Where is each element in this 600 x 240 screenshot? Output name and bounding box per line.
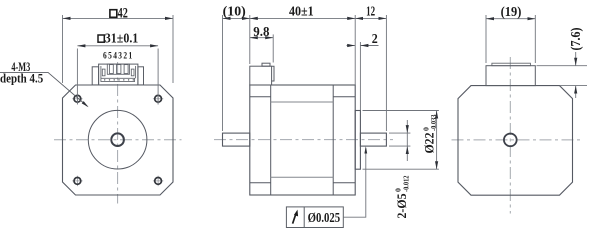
svg-text:12: 12	[366, 5, 375, 19]
dia-22 tolerance text	[421, 114, 438, 153]
dimension (10)	[223, 15, 250, 131]
svg-text:(19): (19)	[501, 3, 522, 19]
stator stack silhouette top	[271, 101, 334, 103]
runout symbol	[293, 210, 299, 224]
rear end-cap joint line	[270, 85, 272, 195]
svg-text:3: 3	[118, 49, 122, 60]
connector front: slot 3	[124, 65, 128, 74]
dimension (19)	[486, 15, 535, 63]
dimension 12	[355, 15, 386, 131]
connector front: left hook	[102, 69, 105, 76]
connector front: slot 1	[109, 65, 113, 74]
2-dia-5 tolerance text	[394, 175, 411, 218]
dimension square-31	[77, 46, 158, 105]
side view horizontal centerline	[214, 139, 393, 141]
connector front: main housing	[99, 64, 138, 85]
(7.6) text	[568, 27, 583, 50]
mounting hole top-left	[72, 94, 82, 104]
dimension (7.6)	[537, 52, 588, 98]
shaft circle	[111, 133, 124, 146]
front view motor body octagon	[63, 85, 174, 195]
runout feature control frame	[286, 207, 343, 228]
svg-text:9.8: 9.8	[253, 24, 270, 39]
svg-text:2: 2	[372, 32, 378, 47]
rear shaft circle	[504, 134, 517, 147]
rear cap chamfer edge top	[250, 96, 271, 98]
connector front: inner left wall	[100, 66, 102, 78]
rear view body octagon	[458, 86, 573, 196]
connector side profile block	[250, 66, 272, 85]
front view vertical centerline	[117, 62, 119, 204]
svg-text:42: 42	[118, 5, 128, 21]
connector front: left flange	[92, 67, 98, 85]
rear view vertical centerline	[509, 57, 511, 214]
dimension 2 (boss height)	[347, 42, 379, 110]
rear cap chamfer edge bottom	[250, 182, 271, 184]
svg-text:-0.012: -0.012	[402, 175, 411, 192]
svg-text:31±0.1: 31±0.1	[105, 31, 138, 46]
rear connector latch strip	[492, 63, 531, 65]
front end-cap joint line	[332, 85, 334, 195]
connector front: slot 2	[117, 65, 121, 74]
mounting hole top-right	[153, 94, 163, 104]
4-M3 leader	[0, 72, 88, 106]
mounting hole bottom-left	[72, 176, 82, 186]
stator stack silhouette bottom	[271, 176, 334, 178]
connector front: center key block	[107, 64, 129, 74]
svg-text:4: 4	[113, 49, 117, 60]
side view body	[250, 85, 355, 195]
pin number labels 6 5 4 3 2 1	[103, 49, 132, 60]
dimension square-42 text	[110, 10, 117, 18]
connector front: pins	[104, 79, 134, 80]
front shaft	[360, 133, 386, 146]
rear view horizontal centerline	[452, 139, 582, 141]
connector front: pin strip	[101, 78, 135, 81]
dimension 9.8	[250, 34, 273, 62]
dimension 2-dia-5 shaft	[389, 120, 410, 161]
svg-text:2-Ø5: 2-Ø5	[395, 193, 409, 218]
dimension square-31 text	[98, 35, 104, 42]
svg-text:Ø0.025: Ø0.025	[308, 210, 341, 225]
pilot boss circle	[88, 110, 147, 169]
front pilot boss	[355, 111, 360, 170]
front cap chamfer edge top	[333, 96, 355, 98]
dimension dia-22 boss	[363, 111, 439, 170]
svg-text:(7.6): (7.6)	[568, 27, 583, 50]
svg-text:(10): (10)	[223, 4, 246, 20]
rear connector housing	[486, 66, 535, 86]
svg-text:6: 6	[103, 49, 107, 60]
svg-text:5: 5	[108, 49, 112, 60]
runout leader	[343, 148, 366, 217]
front cap chamfer edge bottom	[333, 182, 355, 184]
front view horizontal centerline	[54, 139, 182, 141]
connector front: inner right wall	[135, 66, 137, 78]
svg-text:1: 1	[128, 49, 132, 60]
connector front: right flange	[138, 67, 144, 85]
mounting hole bottom-right	[153, 176, 163, 186]
connector front: right hook	[131, 69, 134, 76]
connector side latch tab	[262, 63, 270, 66]
svg-text:-0.033: -0.033	[430, 114, 439, 131]
connector side hook	[272, 66, 274, 81]
svg-text:2: 2	[123, 49, 127, 60]
rear shaft	[223, 133, 250, 146]
dimension 40 plus-minus 1	[250, 15, 355, 85]
svg-text:Ø22: Ø22	[422, 133, 437, 154]
svg-text:depth 4.5: depth 4.5	[0, 71, 43, 86]
dimension square-42	[63, 15, 174, 83]
svg-text:40±1: 40±1	[289, 4, 314, 19]
